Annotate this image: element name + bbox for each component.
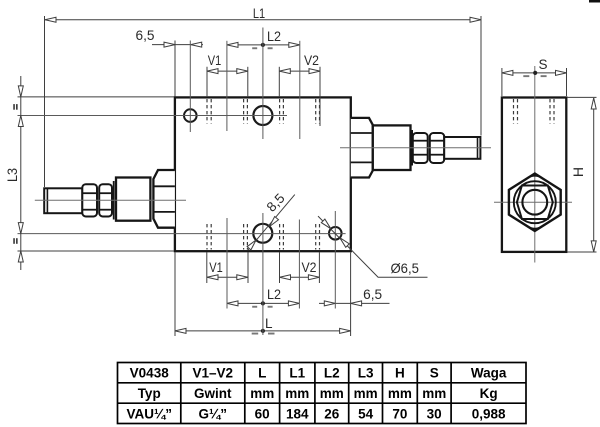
right locknut hex B [430, 133, 444, 163]
bottom L2 dimension [227, 302, 299, 304]
svg-text:L2: L2 [324, 366, 340, 381]
hex chamfer arcs [528, 176, 543, 178]
svg-text:V1–V2: V1–V2 [193, 366, 234, 381]
svg-text:L2: L2 [267, 29, 281, 44]
left vertical dimension line [20, 76, 22, 270]
valve body outline (front view) [175, 97, 351, 251]
left big hex on body [153, 170, 175, 228]
left locknut hex A [82, 184, 97, 216]
L2 top dimension [227, 44, 300, 46]
svg-text:6,5: 6,5 [363, 287, 382, 302]
svg-text:V0438: V0438 [130, 366, 170, 381]
top small hole [184, 109, 197, 122]
L1 right extension [480, 16, 482, 136]
equals mark top left [13, 104, 15, 110]
corner artifact [589, 0, 600, 3]
equals mark bottom left [13, 238, 15, 244]
svg-text:V1: V1 [209, 260, 223, 275]
bottom big hole [253, 224, 272, 243]
svg-text:0,988: 0,988 [472, 406, 506, 421]
svg-text:Kg: Kg [480, 386, 498, 401]
svg-text:V2: V2 [304, 53, 319, 68]
svg-text:Waga: Waga [471, 366, 507, 381]
right cylinder body [373, 125, 411, 170]
bottom V1 dimension [207, 276, 248, 278]
bottom extension lines [206, 252, 208, 283]
L1 left extension [44, 16, 46, 187]
diameter 6,5 leader [318, 216, 428, 277]
S extension lines [501, 68, 503, 96]
svg-text:mm: mm [388, 386, 412, 401]
ext for 6,5 top [174, 41, 176, 97]
H dimension [593, 98, 595, 252]
6,5 top dimension [152, 44, 203, 46]
left cylinder body [116, 178, 150, 221]
svg-text:184: 184 [286, 406, 309, 421]
svg-text:26: 26 [324, 406, 340, 421]
right washer line [411, 130, 413, 166]
left side: edge extension lines [18, 96, 175, 98]
hidden thread lines top band [207, 99, 320, 124]
V1 top dimension [207, 70, 248, 72]
svg-text:L1: L1 [289, 366, 305, 381]
V2 top dimension [279, 70, 320, 72]
hex chamfer circle [514, 181, 556, 223]
left washer line [113, 181, 115, 220]
bottom 6,5 dimension [319, 302, 390, 304]
right fitting centerline [340, 147, 491, 149]
left stem chamfer line [46, 188, 48, 213]
svg-text:V2: V2 [302, 260, 317, 275]
svg-text:mm: mm [250, 386, 274, 401]
inner bore circle [522, 190, 547, 215]
svg-text:mm: mm [320, 386, 344, 401]
side view hex nut outer hexagon [509, 174, 561, 231]
side view horizontal centerline [494, 201, 572, 203]
svg-text:G¼”: G¼” [199, 406, 228, 421]
svg-text:Typ: Typ [138, 386, 161, 401]
svg-text:8,5: 8,5 [264, 191, 288, 215]
svg-text:mm: mm [354, 386, 378, 401]
svg-text:L: L [265, 316, 273, 331]
right threaded stem [444, 137, 480, 159]
svg-text:Gwint: Gwint [194, 386, 232, 401]
top extension lines [189, 41, 191, 133]
bottom small hole [329, 227, 342, 240]
svg-text:L: L [258, 366, 266, 381]
right locknut hex A [413, 133, 428, 163]
svg-text:L3: L3 [5, 168, 20, 182]
svg-text:6,5: 6,5 [136, 28, 155, 43]
hidden thread lines bottom band [207, 224, 320, 250]
svg-text:L1: L1 [253, 6, 265, 21]
svg-text:70: 70 [392, 406, 407, 421]
inner hexagon [517, 186, 553, 220]
svg-text:L2: L2 [267, 287, 281, 302]
L1 dimension line [45, 19, 481, 21]
side view vertical centerline [534, 66, 536, 263]
right big hex on body [351, 118, 373, 178]
svg-text:54: 54 [358, 406, 374, 421]
side view hidden thread lines [514, 99, 555, 124]
svg-text:H: H [395, 366, 405, 381]
svg-text:60: 60 [255, 406, 270, 421]
svg-text:mm: mm [285, 386, 309, 401]
left locknut hex B [99, 184, 112, 216]
bottom V2 dimension [280, 276, 320, 278]
right stem chamfer line [477, 137, 479, 159]
svg-text:S: S [430, 366, 439, 381]
S dimension [502, 72, 567, 74]
svg-text:L3: L3 [358, 366, 374, 381]
svg-text:30: 30 [427, 406, 442, 421]
side view body outline [502, 98, 566, 252]
svg-text:Ø6,5: Ø6,5 [390, 260, 419, 276]
H extension lines [567, 96, 597, 98]
svg-text:H: H [570, 167, 586, 177]
8,5 leader with arrows [248, 195, 295, 251]
bottom L dimension [175, 330, 351, 332]
svg-text:S: S [538, 57, 547, 72]
svg-text:VAU¼”: VAU¼” [126, 406, 172, 421]
left fitting threaded stem [44, 188, 82, 213]
svg-text:mm: mm [422, 386, 446, 401]
top big hole [253, 106, 272, 125]
left fitting centerline [35, 199, 186, 201]
svg-text:V1: V1 [208, 53, 222, 68]
